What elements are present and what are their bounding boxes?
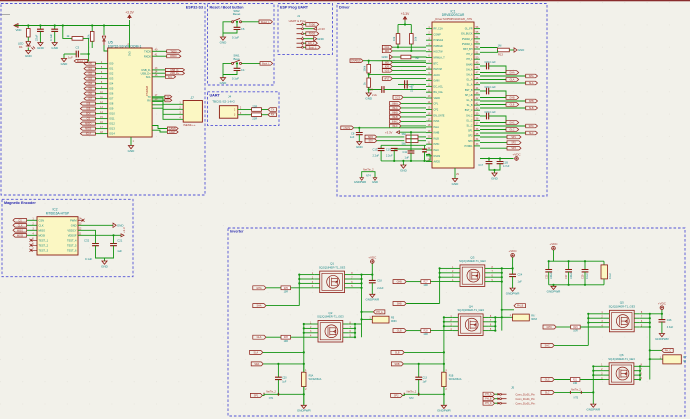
- svg-text:PH_B: PH_B: [485, 398, 492, 401]
- wire Q4 left source bus: [443, 317, 445, 404]
- svg-text:USB_D+: USB_D+: [170, 72, 180, 75]
- J1 pin 6 Boot_L: [297, 46, 302, 48]
- svg-text:SLC: SLC: [529, 132, 534, 135]
- wire Q1 right bus to phase: [350, 274, 362, 276]
- svg-text:9063: 9063: [531, 318, 537, 321]
- IC1 right pin SP3: [474, 140, 480, 142]
- IC1 right pin SL_B: [474, 104, 480, 106]
- svg-text:2.2uF: 2.2uF: [386, 154, 393, 158]
- wire Q6 right bus: [638, 365, 641, 367]
- svg-text:GND: GND: [101, 264, 109, 268]
- svg-text:GNDPWR: GNDPWR: [655, 337, 669, 341]
- label TX: [268, 108, 277, 112]
- svg-text:RX: RX: [147, 98, 151, 102]
- svg-text:nFLT: nFLT: [384, 78, 390, 81]
- IC1 right pin SH_C: [474, 114, 480, 116]
- svg-text:IO5: IO5: [109, 87, 114, 91]
- svg-text:10k: 10k: [414, 36, 418, 41]
- label IDRV: [382, 65, 392, 69]
- svg-text:SLA: SLA: [254, 351, 259, 354]
- wire pin stub: [453, 316, 459, 318]
- svg-text:GND: GND: [365, 96, 373, 100]
- svg-text:ALOC: ALOC: [434, 74, 441, 77]
- svg-text:SLA: SLA: [529, 82, 534, 85]
- svg-text:TBC01-S2-1-6-G: TBC01-S2-1-6-G: [212, 100, 235, 104]
- label IO14: [80, 132, 95, 135]
- J1 pin 4 GND: [297, 38, 302, 40]
- svg-text:IO6: IO6: [109, 92, 114, 96]
- svg-text:PH_A: PH_A: [485, 393, 492, 396]
- IC1 right pin BST_BH: [474, 48, 480, 50]
- svg-text:Q6: Q6: [619, 353, 623, 357]
- capacitor C10 22uF: [398, 83, 426, 85]
- resistor R12 10k: [398, 24, 411, 26]
- svg-text:DC_ACL: DC_ACL: [434, 85, 444, 88]
- label MISO: [80, 122, 95, 125]
- power +VDC driver: [480, 158, 514, 160]
- svg-text:GNDPWR: GNDPWR: [365, 298, 379, 302]
- svg-text:2.2u: 2.2u: [372, 93, 378, 97]
- svg-text:Q5: Q5: [620, 301, 624, 305]
- svg-text:9063: 9063: [391, 320, 397, 323]
- IC1 left pin CPL: [426, 103, 432, 105]
- U5 left pin IO6: [95, 93, 107, 95]
- svg-text:C19: C19: [386, 147, 391, 151]
- svg-text:INHA: INHA: [434, 120, 440, 123]
- svg-text:+3.3V: +3.3V: [317, 27, 325, 31]
- label CLK: [13, 224, 27, 228]
- svg-text:100k: 100k: [363, 65, 367, 71]
- svg-text:Q1: Q1: [330, 262, 334, 266]
- svg-text:SQJQ184ER-T1_GE3: SQJQ184ER-T1_GE3: [317, 315, 344, 319]
- svg-text:GND: GND: [37, 46, 45, 50]
- IC1 left pin NSCS: [426, 155, 432, 157]
- svg-text:RX: RX: [271, 114, 275, 117]
- label RX: [268, 113, 277, 117]
- svg-text:10k: 10k: [392, 36, 396, 41]
- capacitor bootstrap C1B 0.1uF: [480, 90, 487, 92]
- label GHB: [480, 97, 506, 99]
- svg-text:GHC: GHC: [509, 122, 515, 125]
- capacitor C32 0.1uF: [92, 244, 99, 246]
- J7 pin 1: [152, 98, 183, 104]
- label CS: [13, 219, 27, 223]
- label SP2: [480, 142, 507, 144]
- svg-text:1uF: 1uF: [68, 56, 73, 60]
- IC1 left pin BG_CAL: [426, 91, 432, 93]
- svg-text:GLA: GLA: [257, 336, 262, 339]
- svg-text:SCK: SCK: [86, 113, 91, 116]
- wire pin stub: [604, 317, 610, 319]
- svg-text:Boot_L: Boot_L: [262, 62, 270, 65]
- IC1 right pin BST_B: [474, 89, 480, 91]
- svg-text:SHA: SHA: [257, 305, 262, 308]
- label GHB: [393, 280, 406, 284]
- svg-text:560: 560: [402, 133, 407, 136]
- svg-text:SH_C: SH_C: [466, 114, 473, 117]
- wire pin stub: [455, 276, 461, 278]
- svg-text:3.3uF: 3.3uF: [667, 326, 674, 329]
- label SP3: [480, 147, 507, 149]
- label Reset_L: [74, 60, 87, 63]
- svg-text:C20: C20: [282, 376, 287, 379]
- svg-text:PVDD2_1: PVDD2_1: [462, 43, 473, 46]
- svg-text:IO12: IO12: [109, 122, 115, 126]
- svg-text:+VDC: +VDC: [512, 152, 521, 156]
- capacitor C31 bulk: [603, 261, 605, 265]
- svg-text:GND: GND: [452, 182, 460, 186]
- IC1 right pin PH_1: [474, 58, 480, 60]
- capacitor C12 rotated: [424, 145, 426, 149]
- power +3.3V right: [114, 234, 122, 236]
- svg-text:GND: GND: [220, 81, 228, 85]
- IC1 DRV8320SCAR body: [432, 22, 474, 168]
- transistor Q4: [458, 314, 483, 336]
- svg-text:IO8: IO8: [109, 102, 114, 106]
- capacitor C13B 1uF: [418, 364, 420, 377]
- svg-text:INHA: INHA: [392, 102, 398, 105]
- label GHA: [480, 72, 506, 74]
- label SHC: [541, 343, 554, 347]
- svg-text:COMP: COMP: [434, 33, 442, 36]
- IC1 left pin PWRGD: [426, 45, 432, 47]
- wire pin stub: [314, 278, 320, 280]
- svg-text:IO9: IO9: [109, 107, 114, 111]
- svg-text:GND: GND: [491, 176, 499, 180]
- IC1 right pin SP2: [474, 135, 480, 137]
- svg-text:C15 0.1uF: C15 0.1uF: [485, 86, 497, 89]
- svg-text:GNDPWR: GNDPWR: [547, 290, 561, 294]
- svg-text:NetTie_2: NetTie_2: [571, 389, 581, 392]
- svg-text:SP1: SP1: [468, 130, 473, 133]
- IC1 right pin GL_A: [474, 79, 480, 81]
- label SRB: [391, 362, 403, 366]
- IC2 left pin CLK: [27, 224, 37, 226]
- IC2 left pin TEST_2: [30, 244, 38, 247]
- J5 pin PH_B: [483, 397, 495, 401]
- wire pin stub: [604, 379, 610, 381]
- svg-text:GLC: GLC: [510, 129, 515, 132]
- ground GNDPWR phase A bottom: [303, 404, 305, 407]
- label IO3: [84, 77, 95, 80]
- capacitor C18b 4.7uF: [499, 159, 501, 162]
- svg-text:BST_BH: BST_BH: [463, 48, 473, 51]
- label IO1: [84, 67, 95, 70]
- IC1 right pin GL_B: [474, 99, 480, 101]
- svg-text:PH_C: PH_C: [485, 402, 492, 405]
- label GLA: [253, 335, 266, 339]
- svg-text:PH_A: PH_A: [376, 311, 383, 314]
- svg-text:BST_B: BST_B: [465, 89, 473, 92]
- svg-text:+VDC: +VDC: [549, 242, 558, 246]
- ground below C3: [63, 54, 65, 59]
- svg-text:SQJQ184ER-T1_GE3: SQJQ184ER-T1_GE3: [608, 357, 635, 361]
- svg-text:SLB: SLB: [395, 351, 400, 354]
- svg-text:Q2: Q2: [328, 311, 332, 315]
- svg-text:MISO: MISO: [39, 228, 46, 232]
- svg-text:TEST_5: TEST_5: [67, 243, 77, 247]
- svg-text:MOSI: MOSI: [17, 234, 23, 237]
- U5 left pin IO8: [95, 103, 107, 105]
- wire J4 pin3: [238, 114, 252, 116]
- resistor R2 (LED series): [27, 26, 29, 29]
- capacitor C20 1uF: [277, 364, 279, 377]
- IC1 left pin INLC: [426, 149, 432, 151]
- resistor R1B WCS shunt: [443, 364, 445, 372]
- svg-text:PH_2: PH_2: [467, 53, 474, 56]
- IC1 left pin VADD: [426, 97, 432, 99]
- svg-text:GND: GND: [400, 168, 408, 172]
- svg-text:Boot_L: Boot_L: [309, 46, 317, 49]
- resistor R28 10R: [421, 329, 431, 333]
- svg-text:C18: C18: [377, 280, 382, 283]
- resistor R16 100k: [368, 61, 370, 65]
- svg-text:GND: GND: [117, 223, 123, 227]
- wire VDDCY: [78, 230, 96, 238]
- svg-text:CS: CS: [87, 118, 91, 121]
- capacitor C4 0.1uF: [236, 62, 238, 64]
- svg-text:RXD0: RXD0: [170, 55, 177, 58]
- svg-text:J1: J1: [297, 14, 300, 18]
- svg-text:22uF: 22uF: [410, 86, 414, 92]
- wire Q6 left source bus: [592, 366, 594, 402]
- svg-text:MT6816A-HTSP: MT6816A-HTSP: [46, 211, 69, 215]
- resistor R13 1M: [480, 47, 498, 49]
- svg-text:+3.3V: +3.3V: [385, 130, 393, 134]
- J5 pin PH_C: [483, 401, 495, 405]
- svg-text:GLB: GLB: [510, 104, 515, 107]
- wire Q5 left source bus: [587, 314, 589, 346]
- label SHC: [480, 125, 526, 127]
- svg-text:AVDD: AVDD: [434, 161, 441, 164]
- svg-text:D1: D1: [19, 45, 23, 49]
- ground driver caps: [494, 170, 496, 173]
- svg-text:SL_A: SL_A: [467, 84, 473, 87]
- IC1 right pin GL_FR: [474, 28, 480, 30]
- wire R13b to IC1: [410, 44, 412, 51]
- label SHB: [393, 302, 406, 306]
- IC1 left pin COMP: [426, 33, 432, 35]
- svg-text:IO2: IO2: [109, 72, 114, 76]
- U5 right pin USB_D+: [152, 72, 165, 74]
- net tie NT2: [404, 393, 444, 395]
- svg-text:IO3: IO3: [88, 78, 93, 81]
- svg-text:GL_C: GL_C: [466, 119, 473, 122]
- IC1 right pin SP1: [474, 130, 480, 132]
- IC2 left pin MOSI: [27, 234, 37, 236]
- svg-text:+VDC: +VDC: [658, 302, 667, 306]
- svg-text:100uF: 100uF: [550, 272, 553, 279]
- label nFAULT: [382, 77, 392, 81]
- svg-text:CS: CS: [18, 219, 22, 222]
- wire pin stub: [313, 323, 319, 325]
- capacitor C8 1uF: [358, 128, 360, 133]
- svg-text:GND: GND: [220, 40, 228, 44]
- svg-text:SCS: SCS: [395, 96, 400, 99]
- J1 pin 1 TXD0: [297, 23, 302, 25]
- svg-text:IO11: IO11: [109, 117, 115, 121]
- svg-text:GNDPWR: GNDPWR: [506, 291, 520, 295]
- U5 pin 3V3 top: [129, 26, 131, 49]
- label GHA: [253, 286, 266, 290]
- label INLC: [390, 124, 402, 128]
- capacitor C24 1uF: [512, 268, 514, 274]
- svg-text:C13: C13: [373, 147, 378, 151]
- svg-text:TXD0: TXD0: [170, 50, 177, 53]
- svg-text:GNDPWR: GNDPWR: [297, 409, 311, 413]
- U5 right pin RX: [152, 99, 165, 101]
- svg-text:SH_LB: SH_LB: [465, 94, 473, 97]
- svg-text:1uF: 1uF: [423, 380, 428, 383]
- svg-text:TEST_3: TEST_3: [39, 248, 49, 252]
- wire gnd bus cap bank: [549, 284, 604, 286]
- wire pin stub: [604, 374, 610, 376]
- label IO4: [84, 82, 95, 85]
- resistor R9 22R: [252, 113, 262, 117]
- svg-text:TEST_1: TEST_1: [39, 238, 49, 242]
- U5 left pin IO7: [95, 98, 107, 100]
- svg-text:PWRGD: PWRGD: [434, 45, 443, 48]
- resistor R11 560: [406, 135, 418, 139]
- resistor R8 22R: [252, 108, 262, 112]
- svg-text:CSN: CSN: [39, 218, 45, 222]
- svg-text:GAIN: GAIN: [434, 80, 440, 83]
- power +3.3V: [129, 20, 131, 26]
- capacitor C18 2.2uF: [371, 275, 373, 281]
- diode D2: [103, 26, 105, 36]
- svg-text:C6: C6: [241, 27, 245, 31]
- J7 pin 3: [152, 105, 183, 115]
- wire Q3 right bus to phase: [490, 267, 502, 269]
- ground GNDPWR phase B top: [512, 277, 514, 289]
- J5 pin PH_A: [483, 392, 495, 396]
- svg-text:GND: GND: [25, 54, 33, 58]
- svg-text:22R: 22R: [252, 104, 257, 108]
- label PH_C: [650, 349, 662, 351]
- capacitor C3 1uF (EN): [80, 53, 88, 55]
- IC1 right pin BST_C: [474, 109, 480, 111]
- label pill row B: [382, 49, 392, 53]
- IC1 right pin SH_LB: [474, 94, 480, 96]
- svg-text:100uF: 100uF: [570, 272, 573, 279]
- svg-text:INHB: INHB: [434, 132, 440, 135]
- J1 pin 2 +3.3V: [297, 28, 302, 30]
- transistor Q6: [609, 363, 634, 385]
- svg-text:GNDPWR: GNDPWR: [354, 180, 366, 184]
- svg-text:GHC: GHC: [547, 326, 553, 329]
- capacitor C25 100uF: [548, 261, 550, 269]
- svg-text:NetTie_2: NetTie_2: [363, 168, 374, 172]
- ground GNDPWR phase B bottom: [443, 404, 445, 407]
- svg-text:J7: J7: [191, 96, 195, 100]
- svg-text:+VDC: +VDC: [509, 249, 518, 253]
- svg-text:RX: RX: [166, 99, 170, 102]
- IC1 right pin PVDD2_1: [474, 43, 480, 45]
- svg-text:SHB: SHB: [529, 100, 534, 103]
- svg-text:J4: J4: [228, 94, 231, 98]
- IC1 right pin SH_A: [474, 74, 480, 76]
- J1 pin 3 RXD0: [297, 33, 302, 35]
- svg-text:INHC: INHC: [392, 120, 398, 123]
- svg-text:Magnetic Encoder: Magnetic Encoder: [4, 201, 36, 205]
- svg-text:UART: UART: [210, 94, 221, 98]
- svg-text:SLC: SLC: [545, 391, 550, 394]
- U5 right pin TX: [152, 96, 165, 98]
- label SLB: [480, 107, 526, 109]
- svg-text:NT4: NT4: [366, 175, 371, 178]
- svg-text:GND: GND: [71, 223, 77, 227]
- svg-text:_Driver:SOP50P0104X120_-57N: _Driver:SOP50P0104X120_-57N: [433, 17, 472, 21]
- svg-text:DRV8320SCAR: DRV8320SCAR: [442, 13, 465, 17]
- svg-text:Reset_L: Reset_L: [261, 21, 271, 24]
- svg-text:GL_B: GL_B: [466, 99, 473, 102]
- svg-text:GNDPWR: GNDPWR: [437, 409, 451, 413]
- label SDO: [365, 135, 377, 139]
- svg-text:GND: GND: [382, 55, 388, 59]
- wire pin stub: [314, 274, 320, 276]
- svg-text:C24: C24: [518, 273, 523, 276]
- svg-text:C11: C11: [403, 150, 408, 154]
- label PH_B: [502, 309, 514, 311]
- ground SW1: [222, 75, 224, 78]
- IC1 left pin HOCTW: [426, 51, 432, 53]
- resistor R29 10R: [571, 325, 581, 329]
- svg-text:GHA: GHA: [256, 287, 262, 290]
- svg-text:GND: GND: [61, 62, 69, 66]
- svg-text:Q3: Q3: [470, 255, 474, 259]
- IC1 left pin INHC: [426, 143, 432, 145]
- label IO0: [84, 62, 95, 65]
- label SLC: [480, 132, 526, 134]
- svg-text:Conn_01x01_Pin: Conn_01x01_Pin: [516, 393, 536, 396]
- svg-text:1uF: 1uF: [117, 249, 122, 253]
- svg-text:10k: 10k: [87, 34, 91, 39]
- svg-text:10R: 10R: [423, 333, 428, 336]
- capacitor bootstrap C1A 0.1uF: [480, 65, 487, 67]
- capacitor C2 0.1uF: [54, 26, 56, 30]
- svg-text:1uF: 1uF: [405, 156, 410, 160]
- IC1 right pin SL_A: [474, 84, 480, 86]
- IC2 left pin CSN: [27, 219, 37, 221]
- svg-text:IO4: IO4: [109, 82, 114, 86]
- resistor R26 10R: [281, 335, 291, 339]
- svg-text:MOSI: MOSI: [39, 233, 46, 237]
- U5 left pin IO3: [95, 78, 107, 80]
- IC2 left pin MISO: [27, 229, 37, 231]
- resistor R5 9063 shunt: [362, 318, 373, 320]
- wire pin stub: [453, 321, 459, 323]
- U5 right pin SCL: [152, 76, 165, 78]
- IC1 right pin BHA5: [474, 63, 480, 65]
- resistor R27 10R: [421, 280, 431, 284]
- resistor R7 9063 shunt: [650, 358, 663, 360]
- svg-text:nSCS: nSCS: [344, 127, 351, 130]
- svg-text:MD: MD: [385, 61, 389, 64]
- svg-text:EN_L: EN_L: [308, 42, 315, 45]
- svg-text:TXD0: TXD0: [309, 23, 316, 26]
- resistor R3 10k pullup: [91, 26, 93, 32]
- svg-text:NRMLA_T: NRMLA_T: [434, 57, 446, 60]
- label SP2: [391, 393, 403, 397]
- svg-text:0.1uF: 0.1uF: [232, 77, 239, 81]
- label MOSI: [13, 234, 27, 238]
- svg-text:NT1: NT1: [269, 397, 274, 400]
- svg-text:CLK: CLK: [18, 224, 23, 227]
- transistor Q3: [460, 265, 485, 287]
- ground below C1: [39, 32, 41, 43]
- resistor R12b 560: [406, 139, 418, 143]
- label ENABLE: [350, 59, 363, 63]
